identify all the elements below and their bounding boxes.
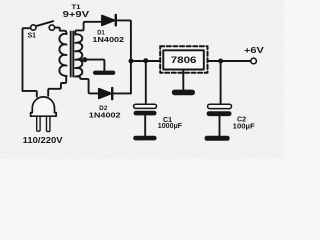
diode D2: [99, 88, 112, 99]
switch S1: [31, 21, 55, 30]
wire switch to primary top: [55, 28, 67, 34]
plug right wire to primary bottom: [48, 76, 66, 96]
wire regulator ground stub: [182, 70, 184, 91]
wire left rail: [23, 28, 30, 91]
svg-text:1N4002: 1N4002: [89, 111, 121, 120]
transformer T1 secondary winding: [75, 34, 82, 76]
node center tap: [82, 57, 87, 62]
ground C1: [133, 136, 156, 141]
transformer T1 core: [70, 32, 72, 77]
ground regulator: [172, 90, 195, 96]
regulator U1 7806 dashed outline: [160, 46, 207, 73]
plug prong 2: [47, 116, 50, 131]
regulator U1 7806 body: [163, 50, 204, 69]
plug left wire: [23, 91, 37, 97]
wire D1 cathode down to D2: [117, 20, 131, 93]
wire D2 cathode: [113, 92, 131, 94]
ground center tap: [93, 71, 115, 75]
wire output rail: [208, 60, 251, 62]
node junction D1/D2 rail: [129, 59, 134, 64]
wire C2 drop: [220, 61, 222, 104]
plug body: [31, 97, 57, 116]
capacitor C2: [207, 104, 232, 116]
wire C2 to ground: [219, 116, 221, 136]
node C1 junction: [143, 58, 148, 63]
svg-text:S1: S1: [28, 33, 37, 40]
svg-text:7806: 7806: [171, 55, 197, 65]
svg-text:1N4002: 1N4002: [92, 35, 124, 44]
svg-text:1000µF: 1000µF: [158, 123, 183, 130]
ground C2: [205, 136, 230, 141]
wire rail to regulator input: [131, 60, 160, 62]
terminal +6V: [251, 58, 257, 64]
svg-text:C2: C2: [237, 116, 246, 123]
svg-text:100µF: 100µF: [233, 123, 256, 130]
wire secondary top to D1: [75, 22, 102, 35]
svg-text:110/220V: 110/220V: [23, 136, 64, 145]
wire C1 to ground: [144, 115, 146, 136]
wire center tap to ground: [80, 60, 104, 71]
wire C1 drop: [145, 61, 147, 104]
plug prong 1: [37, 116, 40, 131]
diode D1: [102, 15, 116, 26]
capacitor C1: [134, 104, 157, 115]
svg-text:9+9V: 9+9V: [63, 10, 90, 19]
node C2 junction: [218, 59, 223, 64]
svg-text:+6V: +6V: [244, 46, 265, 55]
transformer T1 primary winding: [59, 34, 66, 76]
wire secondary bottom to D2: [75, 76, 98, 93]
